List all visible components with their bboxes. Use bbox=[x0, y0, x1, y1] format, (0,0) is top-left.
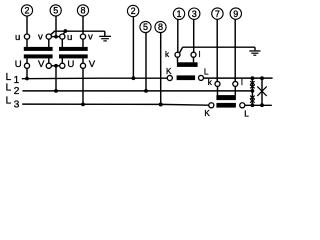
wire L1 line bbox=[22, 77, 273, 80]
svg-text:K: K bbox=[166, 67, 172, 76]
svg-text:u: u bbox=[15, 32, 20, 43]
svg-text:U: U bbox=[15, 59, 22, 70]
wire V2 to L3 bbox=[82, 68, 84, 104]
ground right bars bbox=[249, 50, 260, 51]
svg-text:V: V bbox=[38, 59, 45, 70]
terminal circle 1 bbox=[173, 8, 184, 19]
terminal l2 bbox=[233, 81, 238, 86]
svg-text:l: l bbox=[241, 78, 243, 87]
wire diagonal k1 to earth bus bbox=[179, 47, 182, 53]
terminal circle 5 left bbox=[50, 5, 61, 16]
svg-text:v: v bbox=[38, 32, 43, 43]
svg-text:l: l bbox=[199, 50, 201, 59]
node v1-u2 top bbox=[54, 35, 58, 39]
wire T1 upper leads bbox=[27, 39, 49, 47]
labels L1 L2 L3 bbox=[6, 72, 20, 111]
terminal circle 7 bbox=[212, 8, 223, 19]
junction dots bbox=[25, 29, 264, 107]
svg-text:K: K bbox=[204, 109, 210, 118]
cross mark on link B bbox=[257, 86, 266, 96]
wire right terminal 8 drop bbox=[160, 33, 162, 105]
wire terminal 1 to k bbox=[177, 20, 179, 53]
node t8-L3 bbox=[159, 103, 163, 107]
wire left earth bus bbox=[54, 30, 105, 32]
terminal v1 bbox=[46, 34, 51, 39]
svg-text:5: 5 bbox=[143, 22, 148, 32]
wire L3 line bbox=[22, 104, 272, 105]
terminal circle 8 right bbox=[155, 21, 166, 32]
wire terminal 3 to l bbox=[193, 19, 195, 52]
terminal circle 8 left bbox=[77, 5, 88, 16]
svg-text:1: 1 bbox=[14, 75, 20, 86]
wire right earth bus bbox=[183, 46, 256, 48]
terminal U1 bbox=[24, 63, 29, 68]
wire T2 lower leads bbox=[62, 58, 83, 63]
svg-text:U: U bbox=[67, 59, 74, 70]
svg-text:5: 5 bbox=[53, 6, 58, 16]
node A-L3 bbox=[251, 103, 255, 107]
svg-text:V: V bbox=[89, 59, 96, 70]
CT1 secondary winding bar bbox=[177, 62, 198, 67]
svg-text:8: 8 bbox=[80, 6, 85, 16]
wire U1 to L1 bbox=[26, 68, 28, 78]
svg-text:k: k bbox=[165, 50, 170, 59]
node t2-L1 bbox=[132, 76, 136, 80]
terminal V1 bbox=[46, 63, 51, 68]
wire T1 lower leads bbox=[27, 58, 49, 63]
terminal l1 bbox=[191, 52, 196, 57]
node t5-L2 bbox=[144, 89, 148, 93]
wire left terminal 5 drop bbox=[55, 16, 57, 37]
terminal L1 bbox=[199, 75, 204, 80]
node U1-L1 bbox=[25, 77, 29, 81]
svg-text:2: 2 bbox=[131, 6, 136, 16]
wire right terminal 5 drop bbox=[145, 33, 147, 91]
node mid-L2 bbox=[54, 89, 58, 93]
wire diagonal v1 to earth bus bbox=[51, 31, 55, 35]
node earth bus bbox=[64, 29, 68, 33]
node A-L1 bbox=[251, 76, 255, 80]
wire vertical link A bbox=[251, 78, 253, 105]
terminal circle 9 bbox=[230, 8, 241, 19]
terminal u1 bbox=[24, 34, 29, 39]
labels left block bbox=[15, 32, 96, 70]
svg-text:L: L bbox=[204, 67, 209, 76]
node V1-U2 bottom bbox=[54, 64, 58, 68]
wire terminal 7 to k2 bbox=[216, 19, 218, 81]
svg-text:3: 3 bbox=[14, 99, 20, 110]
transformer T1 winding bars bbox=[24, 47, 53, 59]
svg-text:2: 2 bbox=[24, 6, 29, 16]
node V2-L3 bbox=[81, 103, 85, 107]
svg-text:9: 9 bbox=[233, 9, 238, 19]
wire left terminal 8 drop bbox=[82, 16, 84, 34]
CT2 secondary winding bar bbox=[216, 95, 236, 100]
svg-text:L: L bbox=[244, 109, 249, 118]
CT2 primary bar bbox=[216, 103, 236, 108]
wire left terminal 2 drop bbox=[26, 16, 28, 34]
svg-text:8: 8 bbox=[158, 22, 163, 32]
terminal K2 bbox=[209, 103, 214, 108]
terminal v2 bbox=[80, 34, 85, 39]
wire junction to L2 bbox=[55, 66, 57, 91]
CT1 primary bar bbox=[177, 75, 196, 80]
ground left bars bbox=[99, 36, 111, 37]
wire link v1-u2 top bbox=[51, 36, 59, 38]
wire right ground stub bbox=[254, 47, 256, 50]
wire T2 upper leads bbox=[62, 39, 83, 47]
terminal k1 bbox=[175, 52, 180, 57]
terminal circle 2 right bbox=[127, 5, 138, 16]
circled digits text bbox=[24, 6, 238, 33]
terminal circle 2 left bbox=[21, 5, 241, 33]
wire terminal 9 to l2 bbox=[234, 19, 236, 81]
terminal U2 bbox=[60, 63, 65, 68]
clamp marks on link A bbox=[250, 81, 255, 102]
wire diagonal bus to u2 bbox=[63, 31, 65, 34]
wire vertical link B bbox=[261, 78, 263, 105]
terminal circle 5 right bbox=[140, 21, 151, 32]
svg-text:k: k bbox=[208, 78, 213, 87]
svg-text:2: 2 bbox=[14, 86, 20, 97]
terminal L2 bbox=[240, 103, 245, 108]
svg-text:L: L bbox=[6, 82, 12, 93]
node B-L3 bbox=[260, 103, 264, 107]
terminal k2 bbox=[215, 81, 220, 86]
small terminal circles bbox=[24, 34, 244, 108]
node A-L2 bbox=[251, 89, 255, 93]
svg-text:v: v bbox=[88, 32, 93, 43]
labels right block bbox=[165, 50, 249, 118]
terminal circle 3 bbox=[189, 8, 200, 19]
wire right terminal 2 drop bbox=[132, 16, 134, 78]
wire CT2 secondary stubs bbox=[218, 86, 236, 95]
wire L2 line bbox=[23, 90, 253, 92]
node B-L1 bbox=[260, 76, 264, 80]
terminal V2 bbox=[80, 63, 85, 68]
transformer T2 winding bars bbox=[59, 47, 88, 59]
ground left bbox=[104, 31, 106, 36]
wire link V1-U2 bottom bbox=[51, 65, 59, 67]
wire CT1 secondary stubs bbox=[178, 57, 194, 62]
svg-text:3: 3 bbox=[192, 9, 197, 19]
svg-text:L: L bbox=[6, 95, 12, 106]
svg-text:7: 7 bbox=[215, 9, 220, 19]
terminal u2 bbox=[60, 34, 65, 39]
terminal K1 bbox=[167, 75, 172, 80]
svg-text:1: 1 bbox=[176, 9, 181, 19]
svg-text:u: u bbox=[67, 32, 72, 43]
svg-text:L: L bbox=[6, 72, 12, 83]
